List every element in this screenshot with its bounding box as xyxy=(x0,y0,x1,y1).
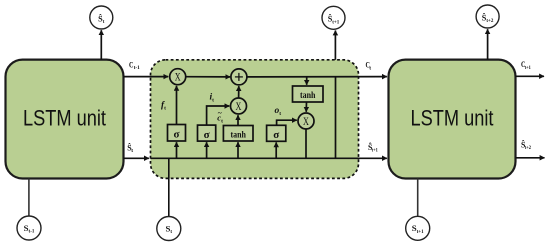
wire sigma-o elbow to X3 xyxy=(277,120,297,125)
svg-text:LSTM unit: LSTM unit xyxy=(411,106,495,131)
wire C(t-1) from left unit to X1 xyxy=(124,76,169,78)
wire X2 to plus xyxy=(238,86,240,98)
wire vertical S-line to C-line riser xyxy=(335,77,337,159)
svg-text:X: X xyxy=(303,116,309,128)
wire S-line to sigma-i xyxy=(206,142,208,158)
wire tanh2 to X3 xyxy=(305,102,307,112)
wire sigma-f to X1 xyxy=(176,86,178,125)
LSTM unit block right xyxy=(389,60,516,179)
wire S-line to tanh1 xyxy=(237,142,239,158)
svg-text:tanh: tanh xyxy=(230,129,246,139)
node S-hat t+2 circle xyxy=(476,5,499,28)
svg-text:tanh: tanh xyxy=(300,90,316,100)
svg-text:t: t xyxy=(131,148,133,154)
svg-text:t-1: t-1 xyxy=(134,65,140,71)
svg-text:σ: σ xyxy=(204,129,210,141)
wire plus to right unit (C t) xyxy=(247,76,387,78)
gate sigma-o box xyxy=(267,125,286,141)
adder plus xyxy=(231,69,247,85)
svg-text:X: X xyxy=(175,72,181,84)
wire S(t-1) circle to left unit bottom xyxy=(28,179,30,217)
svg-text:t+2: t+2 xyxy=(525,145,531,151)
wire S(t+1) circle to right unit bottom xyxy=(417,179,419,217)
wire S(t) from left unit to dashed box xyxy=(124,157,149,159)
gate sigma-f box xyxy=(168,125,186,142)
svg-text:LSTM unit: LSTM unit xyxy=(23,106,107,131)
node S t+1 circle xyxy=(406,216,430,240)
svg-text:t: t xyxy=(369,65,371,71)
svg-text:σ: σ xyxy=(273,129,279,141)
wire tanh1 to X2 xyxy=(237,115,239,125)
wire C(t+1) output right xyxy=(516,75,545,77)
tanh2 box xyxy=(293,86,324,102)
wire S line inside box to right unit (S t+1) xyxy=(151,157,387,159)
svg-text:t+1: t+1 xyxy=(372,147,378,153)
wire S-line to sigma-o xyxy=(275,142,277,158)
node S t-1 circle xyxy=(17,216,41,240)
wire right unit top to S-hat t+2 circle xyxy=(487,29,489,59)
multiplier X3 xyxy=(298,113,314,129)
multiplier X2 xyxy=(231,98,247,114)
wire X1 to plus xyxy=(186,76,231,78)
node S-hat t+1 circle xyxy=(322,6,345,29)
svg-text:X: X xyxy=(236,101,242,113)
svg-text:t+1: t+1 xyxy=(525,65,531,71)
LSTM unit block left xyxy=(6,60,124,179)
svg-text:σ: σ xyxy=(174,129,180,141)
multiplier X1 xyxy=(170,69,186,85)
wire sigma-i elbow to X2 xyxy=(207,106,230,125)
node S-hat t circle xyxy=(90,6,113,29)
gate tanh1 box xyxy=(223,126,253,142)
wire S(t) circle to S-line xyxy=(168,158,170,216)
gate sigma-i box xyxy=(198,125,216,141)
svg-text:~: ~ xyxy=(218,109,222,118)
dashed LSTM internals box xyxy=(151,60,359,179)
wire X3 down to S-line xyxy=(305,129,307,158)
node S t circle xyxy=(157,217,181,241)
wire S-hat(t+2) output right xyxy=(516,157,545,159)
wire S-line to sigma-f xyxy=(176,142,178,158)
wire box top to S-hat t+1 circle xyxy=(334,31,336,60)
wire C-line to tanh2 xyxy=(306,77,308,85)
wire left unit top to S-hat t circle xyxy=(100,30,102,59)
